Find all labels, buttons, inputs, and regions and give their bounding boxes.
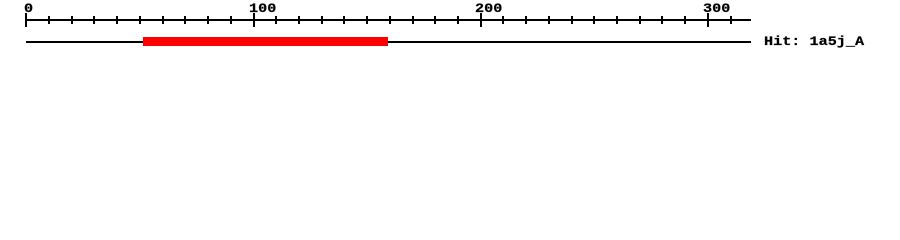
ruler minor tick 110 — [275, 16, 277, 24]
ruler minor tick 170 — [412, 16, 414, 24]
ruler major tick 200 — [480, 13, 482, 27]
ruler minor tick 270 — [639, 16, 641, 24]
ruler minor tick 220 — [525, 16, 527, 24]
ruler minor tick 30 — [93, 16, 95, 24]
ruler minor tick 150 — [366, 16, 368, 24]
query alignment line — [26, 41, 751, 43]
ruler minor tick 120 — [298, 16, 300, 24]
ruler minor tick 20 — [71, 16, 73, 24]
ruler minor tick 260 — [616, 16, 618, 24]
ruler major tick 0 — [25, 13, 27, 27]
ruler label 100 — [249, 4, 276, 15]
ruler minor tick 190 — [457, 16, 459, 24]
ruler minor tick 180 — [434, 16, 436, 24]
ruler label 200 — [475, 4, 502, 15]
ruler minor tick 130 — [321, 16, 323, 24]
ruler major tick 300 — [707, 13, 709, 27]
ruler label 0 — [24, 4, 33, 15]
ruler minor tick 290 — [684, 16, 686, 24]
ruler minor tick 250 — [593, 16, 595, 24]
ruler minor tick 280 — [661, 16, 663, 24]
ruler minor tick 240 — [571, 16, 573, 24]
ruler label 300 — [703, 4, 730, 15]
ruler minor tick 310 — [730, 16, 732, 24]
ruler minor tick 160 — [389, 16, 391, 24]
ruler minor tick 140 — [343, 16, 345, 24]
ruler minor tick 40 — [116, 16, 118, 24]
ruler minor tick 210 — [502, 16, 504, 24]
ruler major tick 100 — [253, 13, 255, 27]
ruler minor tick 90 — [230, 16, 232, 24]
ruler minor tick 80 — [207, 16, 209, 24]
ruler minor tick 50 — [139, 16, 141, 24]
ruler minor tick 70 — [184, 16, 186, 24]
hit coverage bar (red) — [143, 37, 388, 46]
ruler minor tick 60 — [162, 16, 164, 24]
hit name text Hit: 1a5j_A — [764, 37, 864, 48]
ruler minor tick 230 — [548, 16, 550, 24]
ruler axis line — [26, 19, 751, 21]
ruler minor tick 10 — [48, 16, 50, 24]
